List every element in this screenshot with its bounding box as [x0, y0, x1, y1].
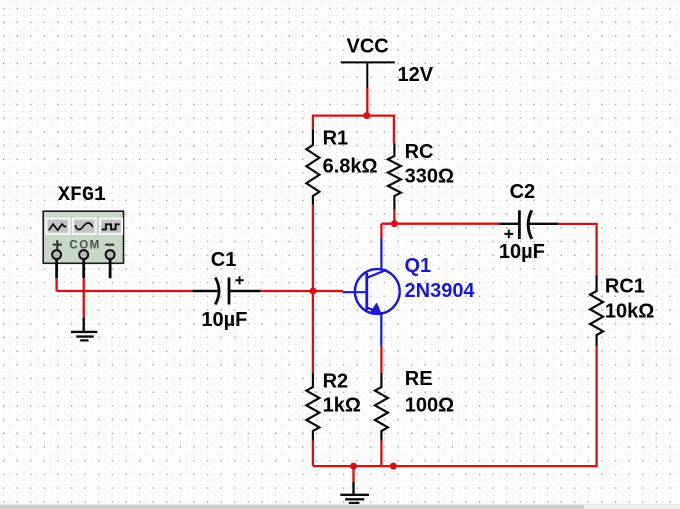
wire R1 top lead (red)	[312, 115, 314, 130]
wire RC top lead (red)	[393, 115, 395, 144]
svg-text:Q1: Q1	[405, 255, 432, 277]
svg-text:RC1: RC1	[605, 275, 645, 297]
wire C1 output to divider node (red)	[261, 290, 313, 292]
resistor RC	[388, 141, 454, 210]
wire XFG1 plus terminal (red)	[55, 278, 57, 291]
svg-text:10kΩ: 10kΩ	[605, 301, 654, 323]
svg-text:1kΩ: 1kΩ	[323, 394, 361, 416]
svg-text:C2: C2	[510, 181, 536, 203]
svg-text:10µF: 10µF	[201, 309, 247, 331]
wire RC1 bottom to ground rail (red)	[313, 346, 597, 466]
svg-text:RE: RE	[405, 368, 433, 390]
svg-text:2N3904: 2N3904	[405, 280, 476, 302]
node junction base/divider	[310, 288, 317, 295]
scrollbar strip	[0, 504, 680, 509]
wire left branch R1 bottom to R2 top (red)	[312, 205, 314, 373]
svg-text:XFG1: XFG1	[58, 184, 106, 207]
svg-text:C1: C1	[211, 249, 237, 271]
svg-text:12V: 12V	[398, 64, 434, 86]
svg-text:6.8kΩ: 6.8kΩ	[323, 156, 378, 178]
svg-text:10µF: 10µF	[499, 241, 545, 263]
wire C2 to right branch (red)	[558, 224, 597, 275]
wire XFG1 COM to ground (red)	[83, 278, 85, 318]
resistor RC1	[590, 275, 654, 346]
resistor R1	[306, 128, 377, 205]
wire VCC stem (red)	[366, 88, 368, 116]
power symbol VCC	[341, 36, 434, 88]
ground (XFG1)	[71, 318, 98, 341]
wire emitter lead (red)	[380, 346, 382, 373]
wire top rail from R1 to RC	[313, 114, 394, 116]
node junction collector rail	[391, 220, 398, 227]
svg-text:RC: RC	[405, 141, 434, 163]
wire base from divider node (red)	[313, 290, 343, 292]
wire collector rail to C2 (red)	[381, 223, 499, 225]
svg-text:R1: R1	[323, 128, 349, 150]
wire XFG1 to C1 (red)	[57, 290, 193, 292]
resistor R2	[306, 370, 360, 440]
capacitor C1	[192, 249, 260, 331]
svg-text:100Ω: 100Ω	[405, 394, 454, 416]
svg-text:330Ω: 330Ω	[405, 166, 454, 188]
node junction ground rail right	[390, 463, 397, 470]
transistor Q1	[343, 238, 476, 346]
node junction at VCC rail	[363, 112, 370, 119]
node junction ground rail left	[350, 463, 357, 470]
wire RC bottom lead (red)	[393, 210, 395, 224]
wire ground stub (red)	[352, 466, 354, 482]
wire R2 bottom lead (red)	[312, 441, 314, 467]
ground (bottom)	[340, 482, 369, 503]
function generator XFG1	[43, 184, 123, 278]
wire collector stub (red)	[380, 224, 382, 239]
capacitor C2	[499, 181, 558, 263]
svg-text:VCC: VCC	[347, 36, 389, 58]
svg-text:R2: R2	[323, 370, 349, 392]
resistor RE	[375, 368, 454, 441]
wire RE bottom lead (red)	[380, 441, 382, 467]
